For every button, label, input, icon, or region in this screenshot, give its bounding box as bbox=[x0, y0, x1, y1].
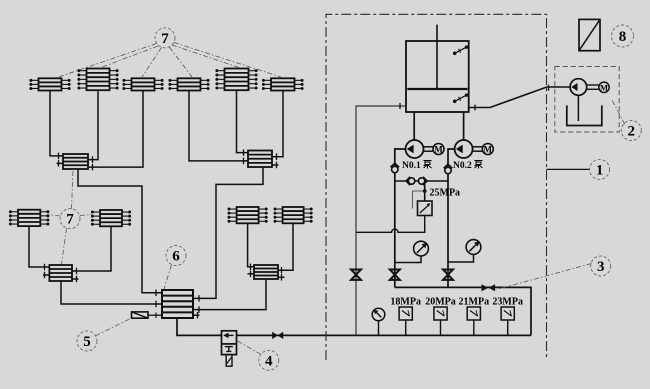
label circle 3 bbox=[591, 256, 611, 276]
pressure gauge 2 bbox=[448, 240, 481, 262]
svg-text:3: 3 bbox=[597, 259, 605, 275]
pressure switch 23MPa bbox=[492, 296, 523, 335]
svg-text:N0.2: N0.2 bbox=[453, 161, 472, 171]
lubrication point C3 bbox=[122, 78, 163, 90]
label circle 4 bbox=[259, 350, 279, 370]
leader label 5 bbox=[96, 319, 131, 336]
check valve cross right bbox=[418, 177, 427, 185]
label circle 7 top bbox=[155, 28, 175, 48]
aux suction line from tank bbox=[469, 87, 570, 108]
distributor block A2 bbox=[248, 151, 272, 168]
svg-text:7: 7 bbox=[161, 31, 169, 47]
motor M2 bbox=[473, 144, 494, 155]
pressure gauge 1 bbox=[395, 241, 429, 262]
lubrication point R1 bbox=[228, 207, 268, 223]
lubrication point L1 bbox=[9, 210, 50, 226]
wire block A to block D bbox=[78, 169, 162, 293]
svg-text:18MPa: 18MPa bbox=[390, 296, 421, 307]
wire R2 to block C bbox=[278, 223, 293, 270]
shutoff valve return line bbox=[351, 270, 361, 280]
pressure switch 18MPa bbox=[390, 296, 421, 335]
svg-text:N0.1: N0.1 bbox=[402, 161, 421, 171]
label N0.1 pump bbox=[402, 161, 432, 172]
lubrication point C5 bbox=[215, 69, 257, 91]
tank return stub and line bbox=[356, 106, 406, 335]
leader label 2 bbox=[612, 100, 625, 124]
lubrication point C2 bbox=[77, 69, 118, 91]
stub block C left free bbox=[248, 273, 255, 275]
svg-text:M: M bbox=[600, 83, 608, 93]
leaders from label 7 top bbox=[57, 43, 281, 78]
filter flag item 5 bbox=[132, 312, 163, 318]
wire L1 to block B bbox=[29, 226, 49, 267]
relief valve feed with junction bbox=[423, 181, 427, 201]
svg-text:M: M bbox=[434, 145, 443, 155]
aux pump bbox=[570, 79, 587, 121]
stub block C right free bbox=[278, 276, 285, 278]
lubrication point C6 bbox=[262, 78, 304, 90]
svg-text:20MPa: 20MPa bbox=[425, 296, 456, 307]
stub block B left free bbox=[43, 274, 49, 276]
wire block D to return line bbox=[177, 318, 531, 335]
tank suction to pump N0.2 bbox=[463, 112, 465, 141]
flow control valve item 4 bbox=[222, 331, 237, 366]
label circle 5 bbox=[77, 331, 97, 351]
leader label 4 bbox=[238, 341, 261, 354]
wire C4 to block A2 bbox=[189, 91, 248, 161]
relief valve 25MPa bbox=[418, 201, 433, 216]
wire C2 to block A bbox=[88, 90, 98, 159]
distributor block C bbox=[254, 265, 278, 279]
label circle 6 bbox=[166, 246, 186, 266]
oil tank bbox=[406, 25, 469, 112]
stub block A2 right free bbox=[272, 164, 279, 166]
svg-text:21MPa: 21MPa bbox=[459, 296, 490, 307]
pump N0.1 discharge line bbox=[395, 149, 406, 287]
cross line between pump lines bbox=[395, 180, 448, 182]
svg-text:6: 6 bbox=[172, 249, 180, 265]
lubrication point C4 bbox=[168, 78, 209, 90]
level switch lower bbox=[453, 94, 468, 104]
small gauge on return bbox=[372, 308, 385, 335]
check valve pump 1 bbox=[391, 163, 400, 172]
shutoff valve pump line 2 bbox=[443, 270, 453, 280]
filter item 8 bbox=[579, 19, 600, 50]
distributor block B bbox=[49, 265, 72, 281]
lubrication point L2 bbox=[91, 210, 131, 226]
wire block B to block D bbox=[61, 281, 162, 304]
shutoff valve pump line 1 bbox=[390, 270, 400, 280]
pump N0.2 discharge line bbox=[448, 149, 455, 287]
wire C5 to block A2 bbox=[237, 90, 249, 152]
svg-text:1: 1 bbox=[596, 162, 604, 178]
svg-text:8: 8 bbox=[619, 29, 627, 45]
svg-text:23MPa: 23MPa bbox=[492, 296, 523, 307]
throttle valve item 3 on rail bbox=[482, 284, 496, 291]
wire L2 to block B bbox=[72, 226, 111, 271]
svg-text:5: 5 bbox=[83, 334, 91, 350]
leaders from label 7 lower bbox=[49, 171, 92, 265]
level switch upper bbox=[453, 46, 468, 56]
leader label 3 bbox=[497, 264, 592, 290]
leader label 1 bbox=[547, 168, 591, 170]
supply rail manifold bbox=[395, 287, 531, 335]
pressure switch 21MPa bbox=[459, 296, 490, 335]
label circle 8 bbox=[612, 25, 634, 47]
wire C1 to block A bbox=[50, 91, 63, 156]
svg-text:4: 4 bbox=[265, 353, 273, 369]
aux drain tank bbox=[567, 105, 602, 125]
pump N0.1 bbox=[406, 140, 424, 158]
svg-text:7: 7 bbox=[66, 212, 74, 228]
label circle 1 bbox=[590, 159, 610, 179]
tank suction to pump N0.1 bbox=[413, 112, 415, 141]
label circle 7 lower bbox=[60, 209, 80, 229]
station enclosure (dash-dot) bbox=[326, 14, 547, 360]
check valve pump 2 bbox=[444, 164, 453, 173]
stub block A left free bbox=[57, 162, 64, 164]
distributor block D main bbox=[162, 290, 193, 318]
svg-text:25MPa: 25MPa bbox=[430, 187, 461, 198]
stub block B right free bbox=[72, 278, 79, 280]
aux motor M bbox=[587, 82, 609, 93]
stub block D right free bbox=[193, 314, 200, 316]
distributor block A bbox=[63, 154, 88, 169]
wire C3 to block A bbox=[88, 91, 143, 168]
label N0.2 pump bbox=[453, 161, 483, 172]
relief pilot line bbox=[413, 191, 425, 209]
auxiliary pump unit item 2 bbox=[555, 67, 619, 133]
lubrication point R2 bbox=[274, 207, 313, 223]
svg-text:M: M bbox=[484, 145, 493, 155]
check valve cross left bbox=[406, 177, 415, 185]
pressure switch 20MPa bbox=[425, 296, 456, 335]
motor M1 bbox=[424, 144, 444, 155]
svg-text:2: 2 bbox=[628, 124, 636, 140]
wire block A2 to block D bbox=[193, 167, 263, 298]
lubrication point C1 bbox=[29, 78, 70, 90]
relief drain to return (with line hop) bbox=[356, 216, 425, 233]
wire R1 to block C bbox=[248, 223, 254, 266]
wire C6 to block A2 bbox=[272, 91, 283, 157]
label circle 2 bbox=[621, 121, 641, 141]
pump N0.2 bbox=[455, 140, 473, 158]
gate valve on supply line bbox=[272, 332, 283, 339]
leader label 6 bbox=[164, 265, 172, 289]
wire block C to block D bbox=[193, 279, 266, 310]
